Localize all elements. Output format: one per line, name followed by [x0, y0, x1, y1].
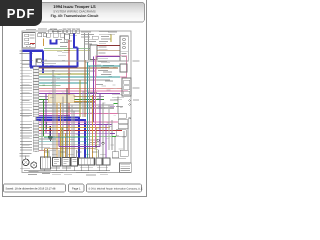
wire row 18	[39, 110, 80, 112]
wire green tick r2	[112, 136, 116, 138]
right margin text 3	[133, 99, 139, 102]
fusible link box	[92, 36, 98, 39]
connector pin row 16	[33, 104, 39, 106]
wire grey drop m	[108, 105, 110, 150]
connector pin row 10	[33, 87, 39, 89]
wire switch link	[112, 158, 126, 160]
relay box K1	[90, 45, 97, 60]
ignition switch inner contact 3	[25, 42, 29, 45]
top right col2 text 2	[99, 33, 111, 36]
fusible link text	[86, 36, 89, 39]
wire row 24	[39, 130, 122, 132]
left wire label 20b	[22, 115, 30, 118]
wire gauge/color designation marks	[42, 60, 127, 149]
top right text 2	[108, 33, 115, 36]
top connector label 3	[72, 27, 76, 30]
connector pin row 4	[33, 70, 39, 72]
left wire label 29	[20, 143, 32, 146]
wire green tick r1	[114, 102, 118, 104]
left wire label 5	[20, 72, 32, 75]
wire purple tick r1	[110, 105, 115, 107]
kickdown switch box	[116, 130, 126, 137]
connector pin row 29	[33, 143, 39, 145]
connector pin row 21	[33, 121, 39, 123]
connector pin row 25	[33, 132, 39, 134]
right text block 1	[112, 93, 122, 96]
fuse box F2c	[54, 30, 58, 33]
hot-at-all-times text 3	[81, 35, 90, 38]
top text col a2	[70, 32, 76, 35]
wire red vertical run	[68, 40, 70, 131]
solenoid label	[97, 166, 108, 169]
bottom pin label 5	[76, 151, 82, 154]
left margin text A	[20, 50, 32, 53]
top right col2 text 4	[101, 38, 111, 41]
connector pin row 26	[33, 135, 39, 137]
wire tan drop f	[69, 131, 71, 158]
top right col2 text 3	[101, 35, 109, 38]
wire grey drop n	[114, 136, 116, 152]
relay side label 4	[99, 55, 108, 58]
wire grey drop c	[73, 111, 75, 158]
frame pin 3	[129, 117, 131, 119]
left wire label 1	[20, 59, 32, 62]
wire purple drop left	[45, 94, 47, 134]
harness inline connector	[37, 59, 41, 62]
above-frame caption 2	[50, 28, 57, 31]
wire tan drop d	[92, 95, 94, 158]
right mid col text 5	[101, 73, 111, 76]
mid annotation 1	[105, 80, 113, 83]
svg-text:1994 Isuzu Trooper LS: 1994 Isuzu Trooper LS	[53, 4, 96, 9]
ground symbol G101	[48, 137, 53, 142]
hot-at-all-times text 5	[84, 40, 96, 43]
solenoid pack box	[118, 125, 128, 129]
top connector label 1	[63, 27, 67, 30]
wire tan drop a	[56, 103, 58, 158]
right text block 2	[112, 96, 124, 99]
wire row 4	[39, 70, 96, 72]
junction block	[65, 34, 70, 39]
ground label 4	[28, 173, 37, 176]
left bulkhead connector strip	[35, 59, 37, 153]
left wire label 19	[20, 112, 32, 115]
ignition switch inner contact 2	[25, 38, 29, 41]
wire row 15	[39, 101, 96, 103]
shift lock label b	[60, 41, 68, 44]
wire vss stem	[25, 156, 27, 160]
cluster lamp 2	[123, 42, 126, 45]
mid annotation pcm2	[90, 141, 97, 144]
wire dark red lamp	[97, 45, 120, 47]
wire olive drop a	[61, 128, 63, 158]
wire blue main bus	[30, 66, 78, 69]
combination meter box	[120, 64, 127, 72]
left wire label 23b	[22, 127, 30, 130]
left wire label 2	[20, 62, 32, 65]
wire grey drop l	[82, 91, 84, 117]
key switch box 2	[43, 34, 47, 37]
ignition switch inner contact 1	[25, 34, 29, 37]
ignition connector pins	[26, 45, 34, 47]
tan harness bundle block	[48, 95, 74, 103]
wire yellow drop	[110, 35, 112, 43]
top connector 3	[72, 30, 75, 33]
legend box	[120, 163, 132, 172]
connector pin row 28	[33, 140, 39, 142]
left wire label 9	[20, 84, 32, 87]
wire green B+	[44, 47, 90, 49]
left wire label 17	[20, 106, 32, 109]
connector pin row 20	[33, 114, 39, 116]
solenoid connector A	[96, 158, 102, 165]
ground label 2	[76, 171, 89, 174]
cluster inner label 2	[122, 55, 127, 58]
shift lock label h	[60, 45, 67, 48]
A/T indicator pink group box	[96, 56, 127, 77]
wire row 22	[39, 124, 112, 126]
frame pin 2	[129, 104, 131, 106]
wire grey drop f	[111, 120, 113, 150]
wire brown drop	[84, 60, 86, 117]
left wire label 26	[20, 135, 32, 138]
shift lock label c	[57, 50, 62, 53]
top text col a1	[59, 30, 67, 33]
svg-text:Saved: 18 de diciembre de 2016: Saved: 18 de diciembre de 2016 23:17:48	[6, 187, 56, 190]
legend line 3	[121, 167, 131, 170]
left wire label 6	[20, 75, 32, 78]
pressure switch box 1	[53, 158, 61, 167]
connector pin row 31	[33, 149, 39, 151]
left wire label 20	[20, 114, 32, 117]
connector pin row 6	[33, 76, 39, 78]
connector pin row 17	[33, 107, 39, 109]
wire bottom comb 2	[58, 150, 60, 158]
wire grey pair b	[42, 118, 44, 150]
bottom-left text block 2	[20, 155, 30, 158]
bottom pin label 7	[92, 151, 98, 154]
wire brown lower run	[44, 148, 96, 150]
wire blue shift-lock U	[51, 39, 57, 43]
wire bottom comb 3	[76, 150, 78, 158]
wire row 11	[39, 90, 128, 92]
above-frame caption 1	[38, 28, 47, 31]
left margin text C	[23, 59, 33, 62]
connector pin row 24	[33, 129, 39, 131]
bottom pin label 8	[100, 153, 106, 156]
left wire label 4	[20, 69, 32, 72]
left wire label 11	[20, 89, 32, 92]
connector pin row 3	[33, 67, 39, 69]
fuse label row 1	[38, 31, 46, 34]
wire grey pair a	[40, 118, 42, 150]
left wire label 13	[20, 95, 32, 98]
top right col2 text 1	[99, 30, 109, 33]
wire grey drop g	[117, 96, 119, 113]
fuse box F2d	[59, 30, 63, 33]
ground bus drops	[45, 165, 107, 171]
pattern switch box	[120, 150, 128, 156]
wire top stub 3	[65, 41, 68, 43]
wire fusible link col b	[88, 33, 90, 60]
sensor label 2	[29, 170, 39, 173]
bottom pin label 4	[68, 153, 74, 156]
left wire label 31	[20, 149, 32, 152]
transmission connector box	[79, 158, 95, 165]
wire row 8	[39, 82, 88, 84]
wire blue lower bus lower line	[36, 120, 85, 158]
wire purple drop c	[58, 133, 60, 146]
wire row 31	[39, 149, 47, 151]
left wire label 5b	[22, 74, 30, 77]
left wire label 10	[20, 87, 32, 90]
wire row 1	[41, 60, 128, 62]
left wire label 23	[20, 126, 32, 129]
wire indigo drop	[49, 126, 51, 137]
PDF badge	[0, 0, 42, 26]
wire purple tick r2	[110, 132, 115, 134]
pressure switch 1 contacts	[54, 160, 59, 164]
svg-text:Page 1: Page 1	[72, 187, 81, 190]
right text block 3	[114, 98, 122, 101]
wire tan stub	[43, 39, 45, 47]
wire green drop left	[43, 99, 45, 136]
instrument cluster box	[120, 36, 128, 61]
legend line 4	[121, 169, 131, 172]
wire blue branch joint	[73, 46, 78, 48]
right mid col text 1	[101, 61, 110, 64]
pressure switch box 3	[71, 158, 78, 167]
fuse label row 2	[52, 30, 61, 33]
wire row 27	[39, 138, 56, 140]
wire row 7	[39, 79, 110, 81]
left wire label 30	[20, 146, 32, 149]
connector pin row 5	[33, 73, 39, 75]
legend line 2	[121, 165, 131, 168]
ground label 3	[97, 171, 107, 174]
wire row 5	[39, 73, 90, 75]
wire row 12	[39, 93, 120, 95]
key switch box	[38, 33, 42, 37]
wire row 30	[39, 147, 50, 149]
wire bottom comb 1	[48, 150, 50, 158]
svg-text:© 2011 Mitchell Repair Informa: © 2011 Mitchell Repair Information Compa…	[89, 187, 143, 190]
sensor label 1	[20, 167, 30, 170]
wire green drop a	[46, 122, 48, 129]
wire grey drop e	[102, 102, 104, 158]
wire dark drop a	[66, 88, 68, 158]
vehicle speed sensor (round)	[23, 159, 30, 166]
right mid col text 4	[103, 71, 112, 74]
wire row 17	[39, 107, 114, 109]
pink box label 3	[98, 69, 108, 72]
connector pin row 8	[33, 82, 39, 84]
top connector 4	[77, 30, 80, 33]
left wire label 22	[20, 123, 32, 126]
wire grey drop b	[62, 96, 64, 158]
bottom pin label 1	[44, 151, 50, 154]
wire grey drop j	[54, 77, 56, 158]
svg-text:SYSTEM WIRING DIAGRAMS: SYSTEM WIRING DIAGRAMS	[53, 10, 95, 14]
bottom pin label 2	[52, 153, 58, 156]
pressure switch 3 contacts	[72, 160, 76, 162]
wire row 2	[41, 62, 56, 64]
fuse box F2	[53, 33, 58, 37]
wire tan drop c	[65, 133, 67, 158]
connector pin row 11	[33, 90, 39, 92]
connector pin row 22	[33, 123, 39, 125]
hot-at-all-times text 1	[81, 31, 91, 34]
wire pink drop	[95, 59, 97, 147]
relay label right 2	[133, 87, 140, 90]
wire grey drop d	[89, 66, 91, 158]
connector pin row 18	[33, 110, 39, 112]
bottom text mid 3	[86, 174, 96, 177]
connector pin row 23	[33, 126, 39, 128]
wire teal drop	[87, 62, 89, 158]
bottom text mid 4	[100, 173, 108, 176]
wire grey lower run	[50, 149, 56, 151]
transmission label	[80, 166, 93, 169]
wire blue branch drop	[77, 47, 79, 67]
top right col2 text 5	[99, 40, 108, 43]
connector pin row 15	[33, 101, 39, 103]
wire row 25	[39, 132, 112, 134]
cluster inner label	[122, 52, 127, 55]
wire row 6	[39, 76, 120, 78]
left wire label 27	[20, 137, 32, 140]
left wire label 11b	[22, 91, 30, 94]
frame pin 1	[129, 100, 131, 102]
relay side label 3	[99, 52, 106, 55]
left wire label 29b	[22, 144, 30, 147]
left wire label 17b	[22, 108, 30, 111]
left margin text B	[20, 52, 33, 55]
cluster lamp 1	[123, 38, 126, 41]
wire row 28	[39, 141, 88, 143]
left wire label 28	[20, 140, 32, 143]
wire teal lower run	[44, 137, 88, 139]
left wire label 26b	[22, 136, 30, 139]
wire olive drop d	[79, 80, 81, 117]
left wire label 14b	[22, 99, 30, 102]
top connector 1	[63, 30, 66, 33]
top connector label 4	[76, 27, 80, 30]
wire row 13	[39, 95, 104, 97]
pressure switch box 2	[62, 158, 70, 167]
left wire label 24	[20, 129, 32, 132]
bottom text mid 1	[52, 173, 61, 176]
hot-at-all-times text 2	[81, 33, 94, 36]
transmission connector pins	[81, 158, 93, 165]
legend line 1	[121, 163, 131, 166]
mid annotation pcm	[90, 139, 98, 142]
wire grey drop i	[127, 120, 129, 150]
right mid col text 3	[101, 66, 109, 69]
ignition switch label 2	[30, 37, 35, 40]
wire row 9	[39, 85, 61, 87]
relay contact 3	[124, 91, 130, 94]
left wire label 16	[20, 103, 32, 106]
bottom pin label 3	[60, 151, 66, 154]
bottom pin label 6	[84, 153, 90, 156]
left wire label 12	[20, 92, 32, 95]
relay contact 2	[124, 86, 130, 90]
relay contact 1	[124, 80, 130, 84]
wire tan drop e	[44, 149, 46, 159]
wire blue harness top run	[23, 50, 44, 52]
footer page box	[69, 184, 85, 192]
wire grey drop h	[123, 131, 125, 150]
wire fusible link col a	[84, 33, 86, 60]
bottom text mid 2	[64, 173, 72, 176]
wire olive ign	[44, 50, 90, 52]
frame top caption	[26, 28, 36, 31]
wire top stub 1	[64, 33, 66, 42]
wire tan bundle 2	[74, 100, 95, 102]
wire row 16	[39, 104, 114, 106]
wire row 19	[39, 113, 118, 115]
diode box	[118, 119, 128, 124]
wire teal meter feed	[88, 65, 121, 67]
wire tan drop b	[60, 103, 62, 158]
wire purple drop d	[105, 125, 107, 158]
footer saved-date box	[4, 184, 66, 192]
od switch box	[112, 152, 119, 158]
left wire label 18	[20, 109, 32, 112]
top text col a3	[70, 34, 77, 37]
bottom-left text block 1	[20, 152, 32, 155]
right small label 2	[116, 105, 123, 108]
inline connector ring 2	[102, 142, 104, 144]
relay side label 2	[99, 49, 108, 52]
connector pin row 19	[33, 112, 39, 114]
wire blue harness right drop	[42, 51, 44, 73]
wire row 21	[39, 121, 118, 123]
shift lock label f	[66, 40, 72, 43]
footer copyright box	[87, 184, 142, 192]
wire tan bundle 1	[74, 96, 95, 98]
wire purple drop a	[93, 57, 95, 123]
wire green tick in pink box	[97, 65, 100, 67]
shift lock label a	[56, 38, 62, 41]
solenoid connector B	[103, 158, 110, 165]
A/T control relay box	[122, 78, 131, 96]
wire grey drop a	[52, 70, 54, 158]
left wire label 21	[20, 120, 32, 123]
ground label 1	[52, 171, 63, 174]
cluster divider	[120, 50, 128, 52]
left wire label 14	[20, 98, 32, 101]
ignition switch label	[30, 34, 35, 37]
wire row 14	[39, 98, 104, 100]
top right col2 text 6	[99, 42, 106, 45]
shift lock label e	[58, 54, 66, 57]
wire row 10	[39, 87, 122, 89]
svg-text:Fig. 40: Transmission Circuit: Fig. 40: Transmission Circuit	[51, 14, 100, 18]
inline connector ring 3	[95, 145, 97, 147]
switch row label 1	[51, 167, 60, 170]
left wire label 3	[20, 66, 32, 69]
wire top stub 2	[68, 33, 70, 38]
wire blue branch upper	[73, 33, 75, 47]
wire olive drop b	[96, 128, 98, 158]
top right text 1	[108, 30, 117, 33]
wire row 26	[39, 135, 115, 137]
inhibitor switch box	[41, 157, 51, 169]
left wire label 8b	[22, 83, 30, 86]
wire row 29	[39, 144, 100, 146]
